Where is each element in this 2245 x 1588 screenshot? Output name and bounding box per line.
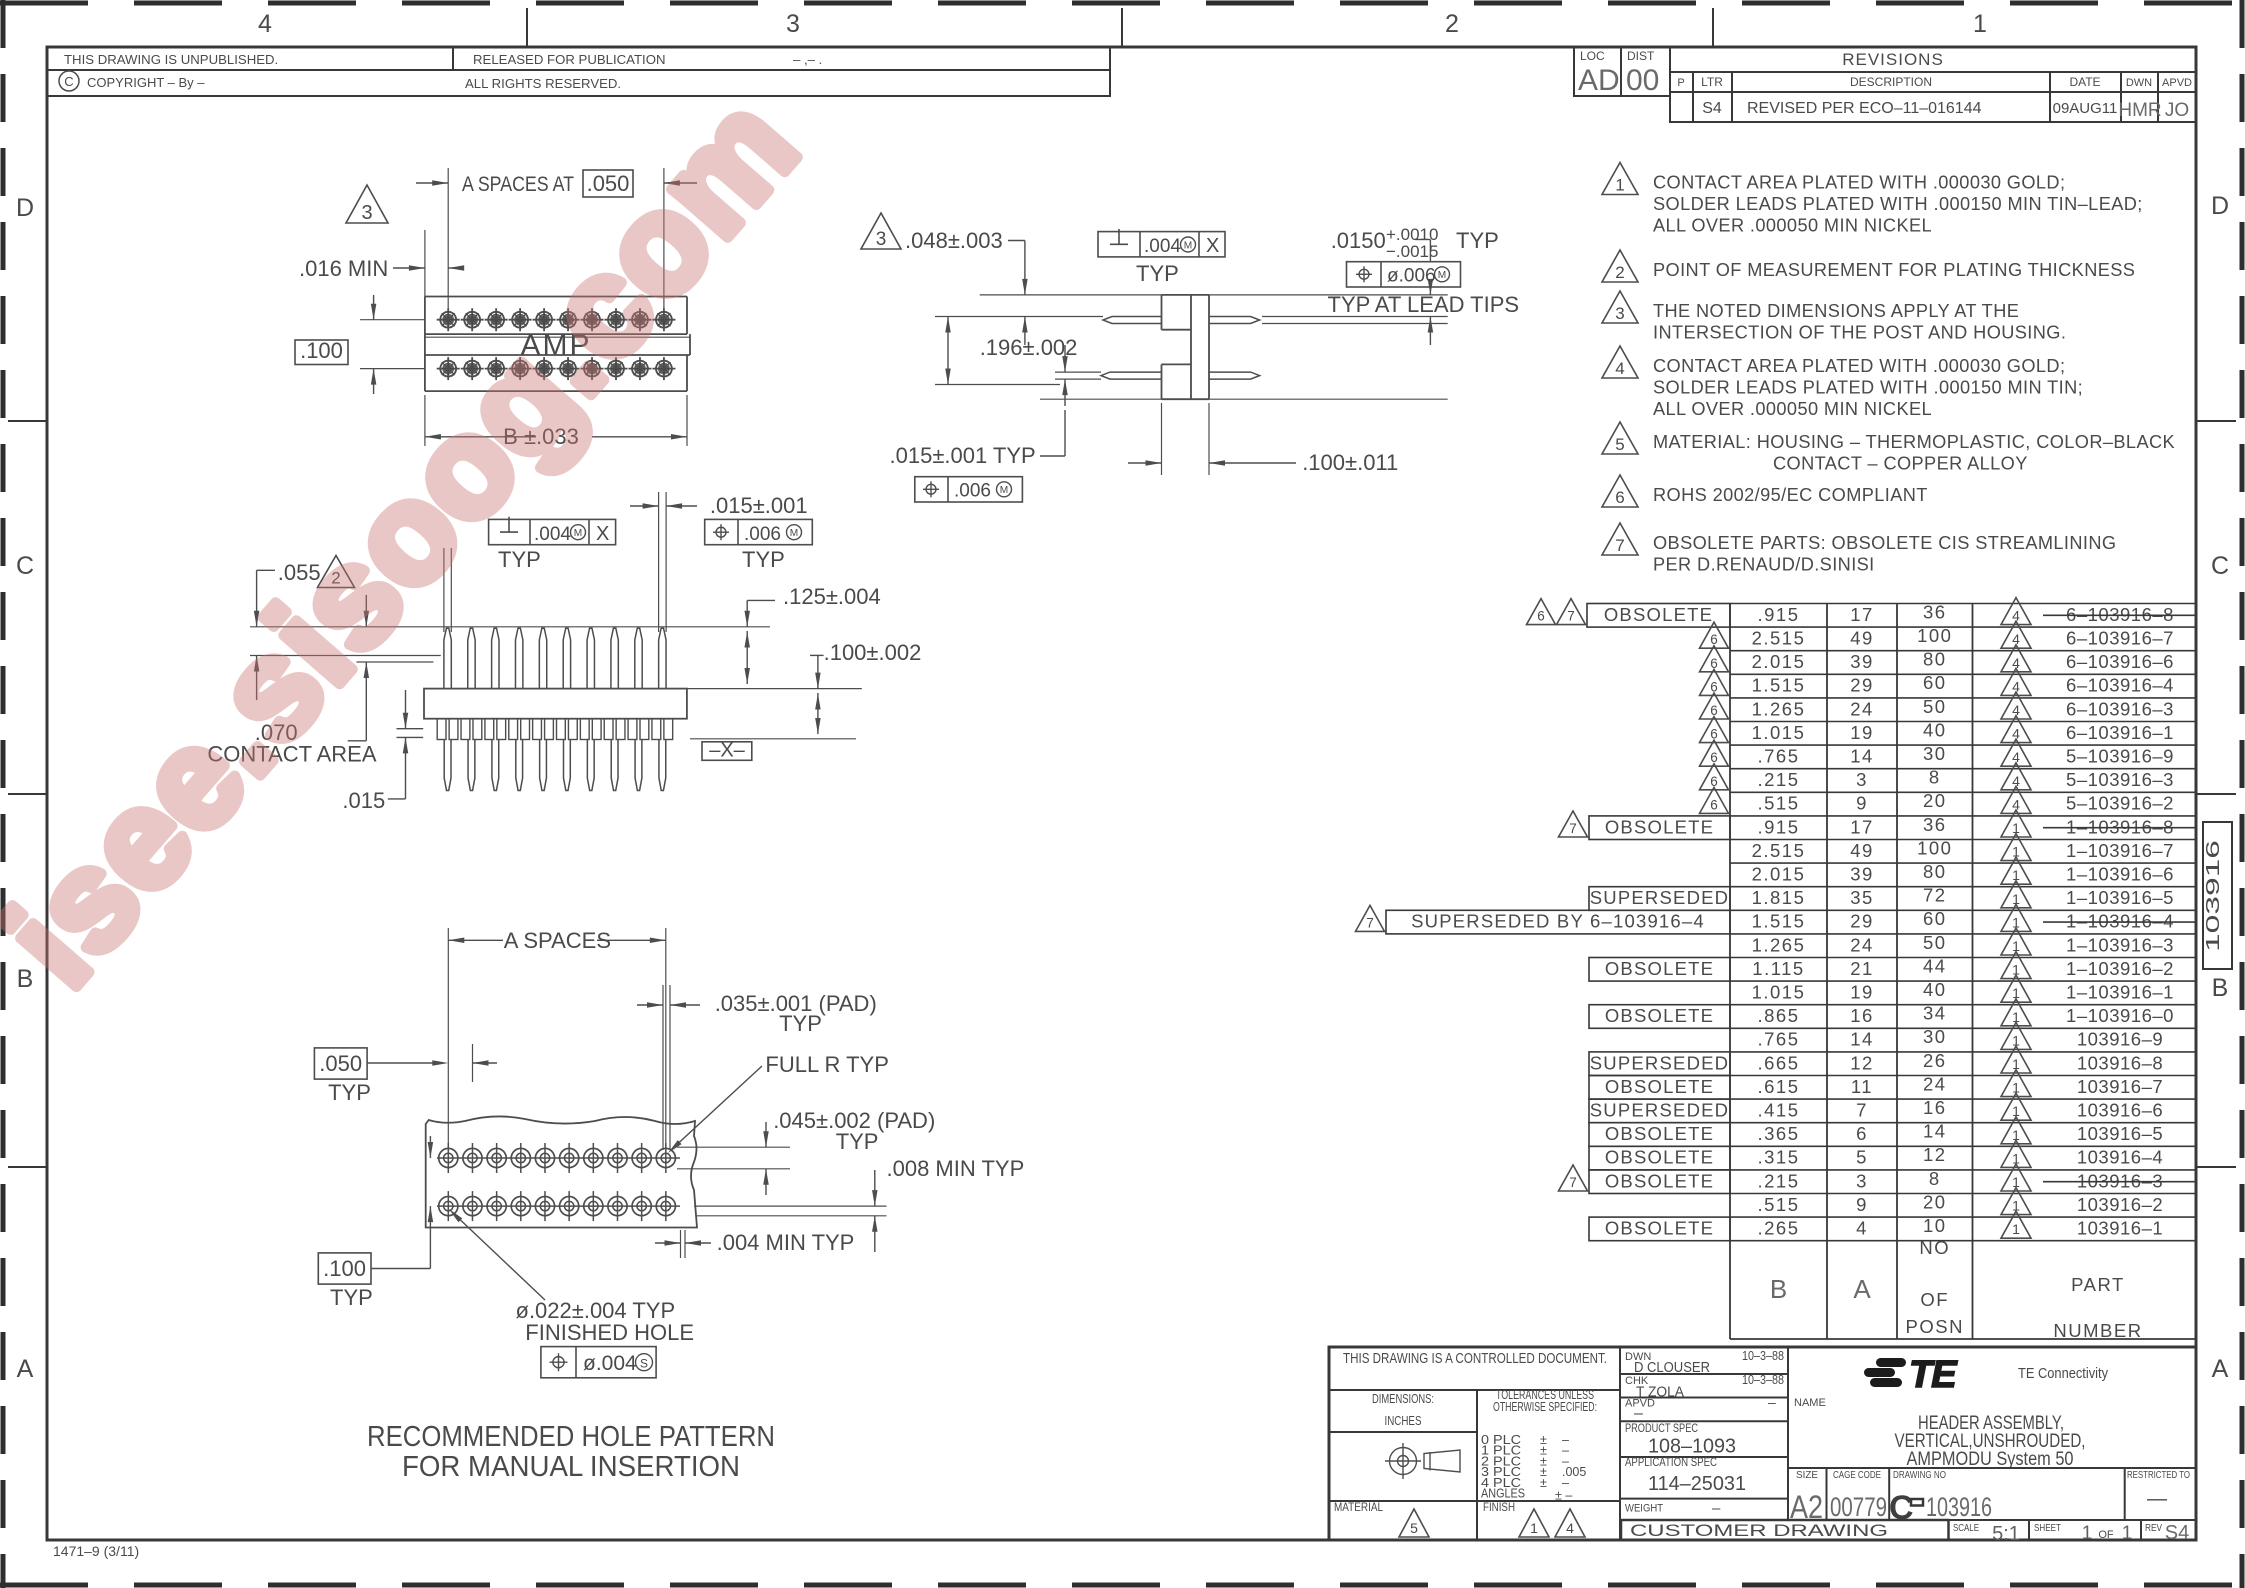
svg-text:1.265: 1.265 — [1752, 934, 1806, 955]
svg-text:8: 8 — [1929, 767, 1941, 788]
view3 upper pins — [444, 628, 451, 688]
svg-text:09AUG11: 09AUG11 — [2053, 100, 2118, 117]
svg-text:.915: .915 — [1757, 816, 1799, 837]
svg-text:OBSOLETE: OBSOLETE — [1605, 1123, 1714, 1144]
svg-text:.016 MIN: .016 MIN — [299, 256, 388, 281]
svg-text:16: 16 — [1850, 1005, 1874, 1026]
svg-text:6–103916–6: 6–103916–6 — [2066, 651, 2174, 672]
svg-text:10–3–88: 10–3–88 — [1742, 1348, 1784, 1363]
svg-text:5–103916–9: 5–103916–9 — [2066, 746, 2174, 767]
svg-text:.100: .100 — [300, 338, 343, 363]
svg-text:TE Connectivity: TE Connectivity — [2018, 1365, 2108, 1382]
svg-text:4: 4 — [1615, 359, 1624, 378]
svg-text:.050: .050 — [319, 1051, 362, 1076]
svg-text:1.515: 1.515 — [1752, 675, 1806, 696]
svg-text:COPYRIGHT – By –: COPYRIGHT – By – — [87, 75, 205, 90]
svg-text:.915: .915 — [1757, 604, 1799, 625]
svg-text:.004: .004 — [534, 524, 571, 545]
svg-text:.315: .315 — [1757, 1147, 1799, 1168]
parts table — [1729, 604, 1731, 1340]
view1 contact circles — [440, 312, 456, 328]
svg-text:A SPACES: A SPACES — [504, 928, 611, 953]
svg-text:39: 39 — [1850, 864, 1874, 885]
view4 .045 pad dim — [677, 1146, 790, 1148]
svg-text:60: 60 — [1923, 672, 1947, 693]
view1 .100 dim — [295, 340, 348, 365]
svg-text:M: M — [574, 528, 582, 539]
svg-text:.615: .615 — [1757, 1076, 1799, 1097]
view4 pos tol box — [541, 1347, 656, 1378]
svg-text:1–103916–4: 1–103916–4 — [2066, 911, 2174, 932]
view3 housing band — [424, 689, 687, 719]
svg-text:SUPERSEDED: SUPERSEDED — [1590, 1100, 1729, 1121]
svg-text:DRAWING NO: DRAWING NO — [1893, 1469, 1946, 1481]
svg-text:20: 20 — [1923, 1191, 1947, 1212]
svg-text:114–25031: 114–25031 — [1648, 1473, 1746, 1495]
svg-text:M: M — [1184, 240, 1192, 251]
svg-text:19: 19 — [1850, 722, 1874, 743]
svg-text:.006: .006 — [954, 481, 991, 502]
svg-text:OBSOLETE: OBSOLETE — [1604, 604, 1713, 625]
svg-text:SIZE: SIZE — [1796, 1469, 1818, 1481]
svg-text:49: 49 — [1850, 840, 1874, 861]
svg-text:REVISED PER ECO–11–016144: REVISED PER ECO–11–016144 — [1747, 100, 1982, 117]
svg-text:00: 00 — [1626, 64, 1659, 97]
svg-text:OBSOLETE: OBSOLETE — [1605, 1170, 1714, 1191]
svg-text:4: 4 — [1856, 1218, 1868, 1239]
svg-text:103916–9: 103916–9 — [2077, 1029, 2163, 1050]
svg-text:1–103916–8: 1–103916–8 — [2066, 816, 2174, 837]
svg-text:TYP AT LEAD TIPS: TYP AT LEAD TIPS — [1328, 292, 1520, 317]
svg-text:ALL OVER .000050 MIN NICKE: ALL OVER .000050 MIN NICKEL — [1653, 399, 1932, 419]
svg-text:MATERIAL: HOUSING – THERMOP: MATERIAL: HOUSING – THERMOPLASTIC, COLOR… — [1653, 432, 2175, 452]
svg-text:1–103916–1: 1–103916–1 — [2066, 982, 2174, 1003]
svg-text:C: C — [64, 74, 73, 89]
svg-text:24: 24 — [1850, 934, 1874, 955]
svg-text:ø.004: ø.004 — [583, 1352, 637, 1375]
vertical drawing number tab — [2203, 822, 2232, 969]
svg-text:POINT OF MEASUREMENT FOR P: POINT OF MEASUREMENT FOR PLATING THICKNE… — [1653, 260, 2135, 280]
svg-text:3: 3 — [1856, 1170, 1868, 1191]
view4 .035 pad dim — [662, 985, 664, 1150]
svg-text:—: — — [2147, 1488, 2167, 1510]
svg-text:29: 29 — [1850, 675, 1874, 696]
svg-text:.215: .215 — [1757, 1170, 1799, 1191]
svg-text:CONTACT AREA PLATED WITH .: CONTACT AREA PLATED WITH .000030 GOLD; — [1653, 356, 2065, 376]
svg-text:12: 12 — [1850, 1052, 1874, 1073]
svg-text:LTR: LTR — [1701, 75, 1723, 89]
svg-text:PART: PART — [2071, 1274, 2125, 1295]
svg-text:.0150: .0150 — [1331, 228, 1386, 253]
svg-text:7: 7 — [1569, 1175, 1577, 1190]
svg-text:3: 3 — [1615, 304, 1624, 323]
svg-text:1.815: 1.815 — [1752, 887, 1806, 908]
svg-text:14: 14 — [1850, 1029, 1874, 1050]
svg-text:B: B — [2212, 974, 2229, 1002]
svg-text:– ,– .: – ,– . — [793, 52, 822, 67]
svg-text:.515: .515 — [1757, 793, 1799, 814]
svg-text:B: B — [1770, 1274, 1787, 1304]
svg-text:24: 24 — [1923, 1073, 1947, 1094]
svg-text:1–103916–6: 1–103916–6 — [2066, 864, 2174, 885]
TE logo — [1864, 1354, 1958, 1396]
svg-text:SCALE: SCALE — [1953, 1522, 1979, 1534]
svg-text:19: 19 — [1850, 982, 1874, 1003]
svg-text:DWN: DWN — [2126, 77, 2152, 89]
svg-text:.004 MIN TYP: .004 MIN TYP — [717, 1230, 855, 1255]
svg-text:80: 80 — [1923, 861, 1947, 882]
svg-text:10: 10 — [1923, 1215, 1947, 1236]
title block — [1329, 1347, 2196, 1540]
svg-text:1–103916–5: 1–103916–5 — [2066, 887, 2174, 908]
svg-text:REV: REV — [2145, 1522, 2162, 1534]
svg-text:2.015: 2.015 — [1752, 651, 1806, 672]
svg-text:TYP: TYP — [498, 547, 541, 572]
svg-text:MATERIAL: MATERIAL — [1334, 1500, 1383, 1514]
svg-text:6: 6 — [1710, 797, 1718, 812]
view2 .015 dim bottom — [1055, 371, 1101, 373]
zone ticks — [526, 8, 528, 47]
view2 .100 dim bottom — [1161, 403, 1163, 475]
view1 A SPACES dim — [447, 168, 449, 320]
svg-text:2.515: 2.515 — [1752, 628, 1806, 649]
view1 top view connector body — [425, 296, 687, 298]
svg-text:7: 7 — [1569, 821, 1577, 836]
view1 B dim — [424, 395, 426, 446]
svg-text:6: 6 — [1615, 488, 1624, 507]
svg-text:M: M — [1000, 485, 1008, 496]
svg-text:TYP: TYP — [836, 1129, 879, 1154]
svg-text:RESTRICTED TO: RESTRICTED TO — [2127, 1469, 2190, 1481]
svg-text:RELEASED FOR PUBLICATION: RELEASED FOR PUBLICATION — [473, 52, 665, 67]
svg-text:.100±.011: .100±.011 — [1302, 450, 1398, 475]
svg-text:SUPERSEDED: SUPERSEDED — [1590, 887, 1729, 908]
svg-text:–X–: –X– — [709, 740, 745, 762]
svg-text:NUMBER: NUMBER — [2053, 1320, 2142, 1341]
svg-text:TYP: TYP — [1456, 228, 1499, 253]
svg-text:POSN: POSN — [1906, 1316, 1964, 1337]
svg-text:–: – — [1712, 1500, 1721, 1517]
svg-text:.665: .665 — [1757, 1052, 1799, 1073]
svg-text:2: 2 — [1615, 263, 1624, 282]
svg-text:C: C — [1889, 1489, 1914, 1527]
svg-text:P: P — [1677, 77, 1684, 89]
svg-text:OBSOLETE: OBSOLETE — [1605, 1005, 1714, 1026]
svg-text:2.515: 2.515 — [1752, 840, 1806, 861]
top-left unpublished/copyright block — [47, 47, 1110, 70]
svg-text:7: 7 — [1856, 1100, 1868, 1121]
svg-text:.008 MIN TYP: .008 MIN TYP — [887, 1156, 1025, 1181]
view4 .004 dim — [680, 1230, 682, 1258]
svg-text:103916: 103916 — [1926, 1492, 1992, 1522]
svg-text:ALL OVER .000050 MIN NICKE: ALL OVER .000050 MIN NICKEL — [1653, 215, 1932, 235]
svg-text:TYP: TYP — [779, 1011, 822, 1036]
svg-text:7: 7 — [1567, 609, 1575, 624]
svg-text:DIMENSIONS:: DIMENSIONS: — [1372, 1392, 1434, 1406]
svg-text:–: – — [1768, 1394, 1776, 1410]
svg-text:6–103916–8: 6–103916–8 — [2066, 604, 2174, 625]
svg-text:44: 44 — [1923, 955, 1947, 976]
svg-text:5: 5 — [1615, 435, 1624, 454]
view4 A SPACES dim — [447, 928, 449, 1147]
svg-text:X: X — [596, 523, 609, 545]
svg-text:.015±.001 TYP: .015±.001 TYP — [890, 443, 1036, 468]
svg-text:2: 2 — [1445, 10, 1459, 38]
svg-text:D: D — [2211, 192, 2229, 220]
svg-text:6–103916–7: 6–103916–7 — [2066, 628, 2174, 649]
svg-text:1471–9 (3/11): 1471–9 (3/11) — [53, 1543, 139, 1559]
svg-text:103916–5: 103916–5 — [2077, 1123, 2163, 1144]
svg-text:ANGLES: ANGLES — [1481, 1487, 1525, 1501]
svg-text:5–103916–2: 5–103916–2 — [2066, 793, 2174, 814]
svg-text:4: 4 — [258, 10, 272, 38]
svg-text:WEIGHT: WEIGHT — [1625, 1503, 1663, 1515]
svg-text:.100: .100 — [323, 1256, 366, 1281]
svg-text:TE: TE — [1909, 1354, 1958, 1396]
svg-text:± –: ± – — [1555, 1489, 1572, 1503]
svg-text:3: 3 — [876, 229, 887, 250]
svg-text:103916: 103916 — [2203, 840, 2223, 952]
svg-text:A SPACES AT: A SPACES AT — [462, 173, 574, 196]
svg-text:FINISH: FINISH — [1483, 1500, 1515, 1514]
svg-text:1.265: 1.265 — [1752, 698, 1806, 719]
svg-text:B: B — [17, 965, 34, 993]
svg-text:.415: .415 — [1757, 1100, 1799, 1121]
svg-text:OBSOLETE PARTS: OBSOLETE CI: OBSOLETE PARTS: OBSOLETE CIS STREAMLININ… — [1653, 533, 2116, 553]
svg-text:A: A — [17, 1355, 34, 1383]
svg-text:THIS DRAWING IS A CONTROLL: THIS DRAWING IS A CONTROLLED DOCUMENT. — [1343, 1350, 1607, 1367]
view2 pos tol box bottom — [915, 477, 1023, 502]
svg-text:.515: .515 — [1757, 1194, 1799, 1215]
svg-text:NAME: NAME — [1794, 1397, 1826, 1409]
svg-text:PER D.RENAUD/D.SINISI: PER D.RENAUD/D.SINISI — [1653, 554, 1875, 574]
svg-text:.215: .215 — [1757, 769, 1799, 790]
svg-text:.365: .365 — [1757, 1123, 1799, 1144]
view3 pin top line — [250, 626, 451, 628]
svg-text:14: 14 — [1850, 746, 1874, 767]
svg-text:DIST: DIST — [1627, 49, 1655, 63]
svg-text:100: 100 — [1917, 625, 1952, 646]
svg-text:3: 3 — [361, 202, 372, 224]
svg-text:1: 1 — [1973, 10, 1987, 38]
svg-text:TYP: TYP — [330, 1285, 373, 1310]
svg-text:D CLOUSER: D CLOUSER — [1634, 1360, 1710, 1376]
svg-text:SUPERSEDED: SUPERSEDED — [1590, 1052, 1729, 1073]
svg-text:40: 40 — [1923, 719, 1947, 740]
view3 contact area lines — [250, 655, 441, 657]
svg-text:1–103916–2: 1–103916–2 — [2066, 958, 2174, 979]
svg-text:2.015: 2.015 — [1752, 864, 1806, 885]
svg-text:1: 1 — [2122, 1523, 2133, 1544]
svg-text:.100±.002: .100±.002 — [824, 640, 922, 665]
svg-text:OBSOLETE: OBSOLETE — [1605, 958, 1714, 979]
svg-text:9: 9 — [1856, 793, 1868, 814]
svg-text:.765: .765 — [1757, 746, 1799, 767]
svg-text:7: 7 — [1366, 915, 1374, 930]
svg-text:JO: JO — [2165, 100, 2189, 121]
notes 1-7 — [1602, 163, 1638, 195]
svg-text:INCHES: INCHES — [1385, 1414, 1422, 1428]
svg-text:24: 24 — [1850, 698, 1874, 719]
svg-text:A: A — [1853, 1274, 1871, 1304]
svg-text:1: 1 — [2082, 1523, 2093, 1544]
svg-text:6: 6 — [1856, 1123, 1868, 1144]
svg-text:5: 5 — [1856, 1147, 1868, 1168]
svg-text:FOR MANUAL INSERTION: FOR MANUAL INSERTION — [402, 1451, 740, 1483]
svg-text:103916–2: 103916–2 — [2077, 1194, 2163, 1215]
svg-text:ALL RIGHTS RESERVED.: ALL RIGHTS RESERVED. — [465, 76, 621, 91]
svg-text:103916–6: 103916–6 — [2077, 1100, 2163, 1121]
svg-text:S: S — [640, 1357, 648, 1371]
svg-text:11: 11 — [1851, 1076, 1873, 1097]
svg-text:20: 20 — [1923, 790, 1947, 811]
svg-text:DATE: DATE — [2069, 75, 2100, 89]
svg-text:21: 21 — [1850, 958, 1874, 979]
view3 shoulder stubs — [437, 719, 446, 740]
svg-text:1.515: 1.515 — [1752, 911, 1806, 932]
svg-text:RECOMMENDED HOLE PATTERN: RECOMMENDED HOLE PATTERN — [367, 1421, 775, 1453]
view2 FCF perp box — [1098, 232, 1225, 257]
svg-text:3: 3 — [786, 10, 800, 38]
svg-text:9: 9 — [1856, 1194, 1868, 1215]
svg-text:34: 34 — [1923, 1003, 1947, 1024]
view4 .008 dim — [694, 1205, 887, 1207]
view3 .015 gap dim — [397, 728, 424, 730]
svg-text:103916–1: 103916–1 — [2077, 1218, 2163, 1239]
svg-text:100: 100 — [1917, 837, 1952, 858]
svg-text:.006: .006 — [744, 524, 781, 545]
svg-text:APVD: APVD — [2162, 77, 2192, 89]
svg-text:FINISHED HOLE: FINISHED HOLE — [525, 1320, 694, 1345]
svg-text:50: 50 — [1923, 696, 1947, 717]
view2 top/bottom surface lines — [980, 294, 1162, 296]
svg-text:CONTACT AREA PLATED WITH .: CONTACT AREA PLATED WITH .000030 GOLD; — [1653, 173, 2065, 193]
view3 pos tol box top — [705, 519, 813, 544]
svg-text:36: 36 — [1923, 601, 1947, 622]
svg-text:NO: NO — [1919, 1237, 1950, 1258]
svg-text:A2: A2 — [1790, 1489, 1823, 1525]
svg-text:29: 29 — [1850, 911, 1874, 932]
svg-text:.015±.001: .015±.001 — [710, 493, 808, 518]
svg-text:SUPERSEDED BY 6–103916–4: SUPERSEDED BY 6–103916–4 — [1411, 911, 1705, 932]
svg-text:LOC: LOC — [1580, 49, 1605, 63]
svg-text:ø.006: ø.006 — [1387, 266, 1436, 287]
svg-text:10–3–88: 10–3–88 — [1742, 1372, 1784, 1387]
svg-text:OBSOLETE: OBSOLETE — [1605, 1147, 1714, 1168]
view2 .048 dim — [861, 213, 901, 249]
svg-text:8: 8 — [1929, 1168, 1941, 1189]
svg-text:OBSOLETE: OBSOLETE — [1605, 1218, 1714, 1239]
svg-text:108–1093: 108–1093 — [1648, 1436, 1736, 1458]
svg-text:39: 39 — [1850, 651, 1874, 672]
svg-text:TYP: TYP — [1136, 261, 1179, 286]
svg-text:APPLICATION SPEC: APPLICATION SPEC — [1625, 1457, 1717, 1469]
svg-text:D: D — [16, 194, 34, 222]
svg-text:12: 12 — [1923, 1144, 1947, 1165]
svg-text:103916–7: 103916–7 — [2077, 1076, 2163, 1097]
svg-text:INTERSECTION OF THE POST A: INTERSECTION OF THE POST AND HOUSING. — [1653, 322, 2066, 342]
svg-text:SOLDER LEADS PLATED WITH .: SOLDER LEADS PLATED WITH .000150 MIN TIN… — [1653, 194, 2143, 214]
svg-text:.765: .765 — [1757, 1029, 1799, 1050]
svg-text:5:1: 5:1 — [1992, 1523, 2020, 1545]
view3 FCF perp box — [489, 519, 616, 544]
svg-text:17: 17 — [1850, 604, 1874, 625]
svg-text:17: 17 — [1850, 816, 1874, 837]
svg-text:5–103916–3: 5–103916–3 — [2066, 769, 2174, 790]
svg-text:S4: S4 — [1702, 100, 1722, 117]
svg-text:A: A — [2212, 1355, 2229, 1383]
svg-text:REVISIONS: REVISIONS — [1842, 50, 1944, 69]
svg-text:3: 3 — [1856, 769, 1868, 790]
svg-text:40: 40 — [1923, 979, 1947, 1000]
svg-text:5: 5 — [1410, 1520, 1418, 1536]
svg-text:OF: OF — [1920, 1289, 1949, 1310]
svg-text:THIS DRAWING IS UNPUBLISHED: THIS DRAWING IS UNPUBLISHED. — [64, 52, 278, 67]
svg-text:1.115: 1.115 — [1752, 958, 1804, 979]
svg-text:26: 26 — [1923, 1050, 1947, 1071]
svg-text:4: 4 — [1566, 1520, 1574, 1536]
svg-text:FULL R TYP: FULL R TYP — [765, 1052, 888, 1077]
svg-text:OBSOLETE: OBSOLETE — [1605, 816, 1714, 837]
svg-text:.865: .865 — [1757, 1005, 1799, 1026]
view4 finished hole label — [452, 1212, 545, 1300]
svg-text:30: 30 — [1923, 743, 1947, 764]
svg-text:.048±.003: .048±.003 — [905, 228, 1003, 253]
svg-text:OBSOLETE: OBSOLETE — [1605, 1076, 1714, 1097]
svg-text:–: – — [1634, 1405, 1643, 1422]
svg-text:OF: OF — [2098, 1529, 2114, 1541]
view3 datum X line — [690, 738, 856, 740]
svg-text:S4: S4 — [2165, 1522, 2189, 1544]
svg-text:6: 6 — [1537, 609, 1545, 624]
svg-text:1.015: 1.015 — [1752, 722, 1806, 743]
svg-text:72: 72 — [1923, 885, 1947, 906]
view4 holes — [437, 1157, 680, 1159]
view2 pos tol box top right — [1347, 262, 1461, 287]
svg-text:.015: .015 — [342, 788, 385, 813]
svg-text:X: X — [1206, 235, 1219, 257]
view4 .050 box — [314, 1048, 367, 1079]
svg-text:60: 60 — [1923, 908, 1947, 929]
svg-text:ROHS 2002/95/EC COMPLIANT: ROHS 2002/95/EC COMPLIANT — [1653, 485, 1928, 505]
svg-text:6–103916–1: 6–103916–1 — [2066, 722, 2174, 743]
svg-text:TYP: TYP — [742, 547, 785, 572]
svg-text:1.015: 1.015 — [1752, 982, 1806, 1003]
svg-text:.265: .265 — [1757, 1218, 1799, 1239]
svg-text:C: C — [2211, 552, 2229, 580]
svg-text:30: 30 — [1923, 1026, 1947, 1047]
view4 board outline — [426, 1116, 697, 1227]
svg-text:35: 35 — [1850, 887, 1874, 908]
svg-text:14: 14 — [1923, 1121, 1947, 1142]
view1 triangle 3 — [346, 185, 388, 223]
svg-text:HMR: HMR — [2118, 100, 2161, 121]
svg-text:SHEET: SHEET — [2034, 1522, 2061, 1534]
svg-text:CONTACT – COPPER ALLOY: CONTACT – COPPER ALLOY — [1773, 454, 2028, 474]
svg-text:.004: .004 — [1144, 236, 1181, 257]
svg-text:1–103916–3: 1–103916–3 — [2066, 934, 2174, 955]
svg-text:1: 1 — [1530, 1520, 1538, 1536]
svg-text:6–103916–3: 6–103916–3 — [2066, 698, 2174, 719]
svg-text:.125±.004: .125±.004 — [783, 584, 881, 609]
svg-text:1: 1 — [2012, 1221, 2020, 1237]
view2 pins — [1103, 317, 1162, 324]
svg-text:CUSTOMER DRAWING: CUSTOMER DRAWING — [1630, 1522, 1888, 1540]
svg-text:1: 1 — [1615, 176, 1624, 195]
svg-text:49: 49 — [1850, 628, 1874, 649]
view3 lower pins — [444, 740, 451, 791]
svg-text:1–103916–0: 1–103916–0 — [2066, 1005, 2174, 1026]
